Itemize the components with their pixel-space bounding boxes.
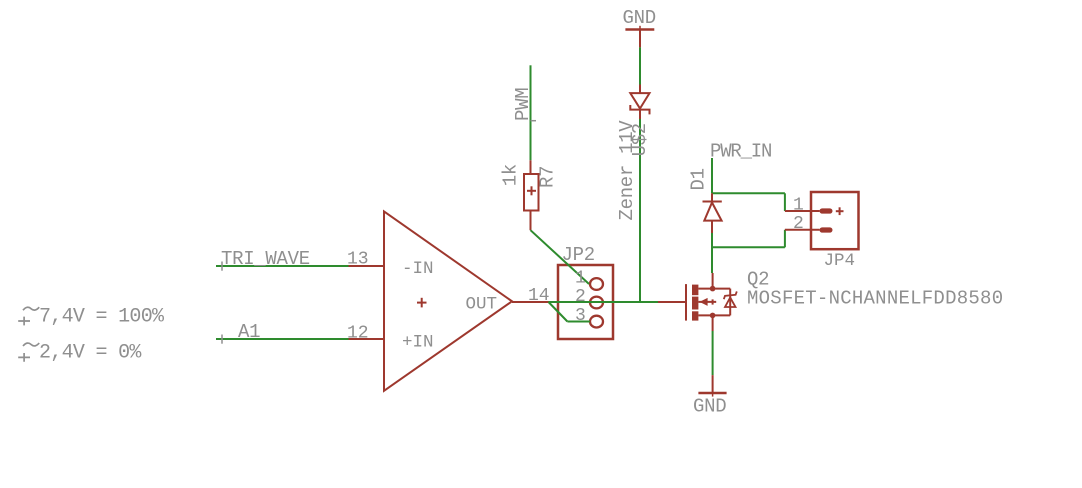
- svg-text:JP2: JP2: [562, 244, 595, 266]
- resistor R7: [524, 160, 539, 230]
- wire PWM: [531, 65, 537, 160]
- connector JP2: [558, 265, 613, 339]
- connector JP4: [785, 192, 859, 249]
- wire source to GND: [712, 331, 714, 375]
- wire D1 anode to drain: [711, 233, 713, 273]
- svg-text:+IN: +IN: [402, 332, 434, 352]
- svg-text:2: 2: [575, 287, 586, 307]
- ground GND top: [623, 7, 656, 48]
- annotation text line 1: [18, 306, 165, 329]
- wire TRI_WAVE: [216, 262, 349, 271]
- wire PWR_IN node to JP4 pin1: [712, 193, 785, 211]
- svg-text:R7: R7: [537, 166, 559, 188]
- svg-text:1: 1: [793, 195, 804, 215]
- svg-text:13: 13: [347, 250, 369, 270]
- svg-text:JP4: JP4: [824, 251, 856, 271]
- ground GND bottom: [693, 375, 727, 417]
- wire OUT to JP2 pin2 and gate: [549, 301, 659, 303]
- pin 13: [347, 250, 384, 270]
- svg-text:-IN: -IN: [402, 259, 434, 279]
- wire PWR_IN down: [711, 158, 713, 193]
- zener diode U$2: [630, 85, 649, 120]
- svg-text:7,4V = 100%: 7,4V = 100%: [39, 306, 165, 329]
- svg-text:3: 3: [575, 306, 586, 326]
- wire JP4 pin2 to drain net: [712, 230, 785, 248]
- wire OUT branch to JP2 pin3: [549, 302, 591, 322]
- svg-text:2: 2: [793, 214, 804, 234]
- pin 14 (OUT): [512, 286, 550, 306]
- svg-text:TRI_WAVE: TRI_WAVE: [221, 248, 310, 270]
- svg-text:14: 14: [528, 286, 550, 306]
- annotation text line 2: [18, 342, 142, 365]
- svg-text:PWM: PWM: [512, 88, 534, 121]
- wire A1: [216, 335, 349, 344]
- diode D1: [703, 193, 722, 233]
- svg-text:A1: A1: [238, 321, 260, 343]
- wire zener to out net: [639, 119, 641, 302]
- svg-text:MOSFET-NCHANNELFDD8580: MOSFET-NCHANNELFDD8580: [747, 288, 1003, 310]
- svg-text:12: 12: [347, 324, 369, 344]
- svg-text:GND: GND: [623, 7, 656, 29]
- svg-text:D1: D1: [688, 168, 710, 190]
- wire R7 to JP2 pin1: [531, 230, 590, 284]
- svg-text:GND: GND: [693, 396, 726, 418]
- wire GND to zener: [639, 47, 641, 84]
- op-amp U1: [384, 211, 512, 390]
- svg-text:1k: 1k: [500, 164, 522, 186]
- pin 12: [347, 324, 384, 344]
- svg-text:OUT: OUT: [466, 294, 498, 314]
- pin G (gate stub): [658, 301, 686, 303]
- transistor Q2: [686, 273, 737, 331]
- svg-text:1: 1: [575, 268, 586, 288]
- svg-text:2,4V = 0%: 2,4V = 0%: [39, 342, 142, 365]
- svg-text:PWR_IN: PWR_IN: [710, 141, 771, 163]
- svg-text:U$2: U$2: [629, 123, 651, 156]
